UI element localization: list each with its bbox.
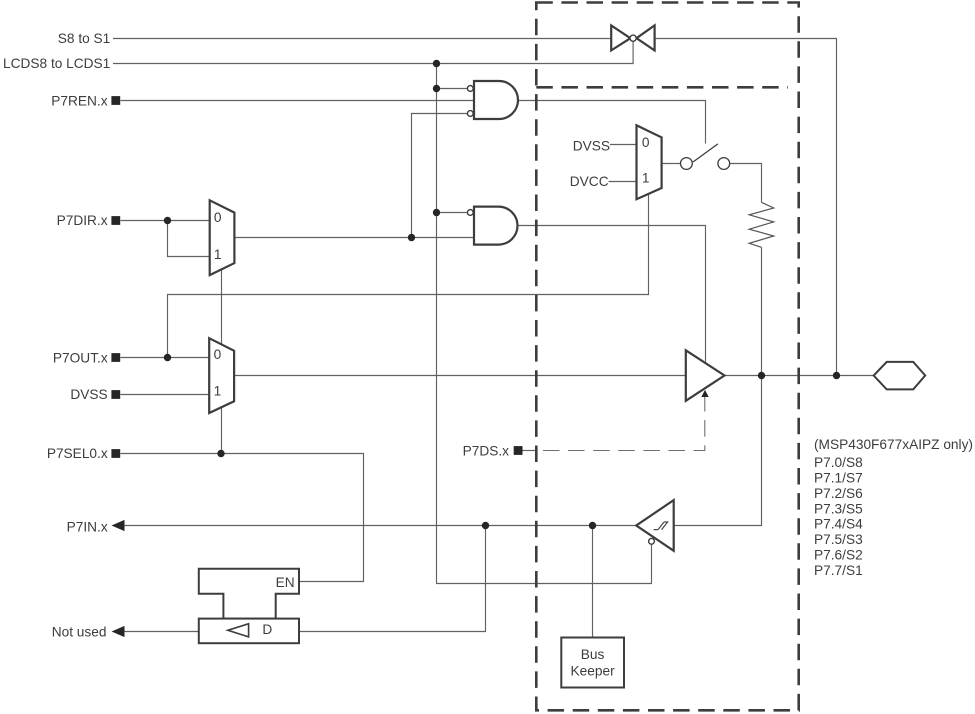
svg-text:1: 1 [214, 247, 222, 262]
D latch box [199, 619, 299, 644]
svg-text:P7.6/S2: P7.6/S2 [814, 548, 863, 563]
svg-text:D: D [262, 622, 272, 637]
svg-text:P7.7/S1: P7.7/S1 [814, 563, 863, 578]
input Schmitt trigger triangle [636, 500, 673, 551]
node P7OUT branch [164, 354, 171, 361]
svg-text:P7.4/S4: P7.4/S4 [814, 517, 863, 532]
wire resistor bottom to Schmitt input [674, 247, 762, 525]
svg-text:DVSS: DVSS [70, 387, 107, 402]
schmitt enable bubble [649, 538, 655, 544]
svg-text:1: 1 [214, 384, 222, 399]
svg-text:P7.5/S3: P7.5/S3 [814, 532, 863, 547]
node direction net [408, 234, 415, 241]
wire P7IN.x from Schmitt output [124, 525, 636, 527]
node P7IN / D latch [482, 522, 489, 529]
wire DVSS input [121, 394, 210, 396]
wire mux select column from P7SEL0 [221, 269, 223, 454]
svg-text:P7IN.x: P7IN.x [67, 519, 108, 534]
node pad / S8 line [833, 372, 840, 379]
svg-text:P7REN.x: P7REN.x [51, 93, 107, 108]
node pad / resistor [758, 372, 765, 379]
wire D latch output to P7IN net [299, 526, 486, 632]
svg-text:Bus: Bus [581, 647, 605, 662]
inverter bubble U1 bottom input [467, 111, 473, 117]
wire P7SEL0.x to EN [121, 454, 364, 582]
mux M1 P7DIR [210, 200, 235, 275]
svg-text:0: 0 [214, 347, 222, 362]
wire Not used from D latch [124, 631, 199, 633]
wire output buffer to pad [725, 375, 874, 377]
D latch clock triangle [228, 624, 249, 637]
and gate U2 (direction logic) [474, 207, 518, 245]
resistor R1 zigzag [749, 202, 774, 247]
switch lever [693, 144, 718, 162]
svg-text:0: 0 [214, 210, 222, 225]
output buffer triangle [686, 350, 725, 401]
switch contact circle right [718, 158, 730, 170]
svg-text:Not used: Not used [52, 625, 107, 640]
svg-text:S8 to S1: S8 to S1 [58, 31, 111, 46]
wire U2 output to output buffer enable [517, 226, 705, 362]
node U2 top input [433, 209, 440, 216]
wire LCDS8-to-LCDS1 to transmission-gate control [113, 42, 633, 64]
node LCDS column top [433, 60, 440, 67]
terminal square P7REN.x [111, 96, 120, 105]
node U1 top input [433, 85, 440, 92]
dashed module boundary box [536, 3, 798, 711]
svg-text:(MSP430F677xAIPZ only): (MSP430F677xAIPZ only) [814, 437, 973, 452]
svg-text:DVSS: DVSS [573, 138, 610, 153]
svg-text:P7.2/S6: P7.2/S6 [814, 486, 863, 501]
svg-text:1: 1 [642, 171, 650, 186]
node P7SEL0 branch [217, 450, 224, 457]
terminal square P7OUT.x [111, 353, 120, 362]
wire P7DIR.x input [121, 220, 210, 222]
drive strength arrowhead [701, 390, 708, 397]
arrow P7IN.x [112, 520, 125, 531]
schmitt hysteresis symbol [654, 522, 669, 530]
wire switch to resistor [730, 164, 761, 203]
wire LCD-disable vertical column to Schmitt enable [437, 64, 652, 584]
svg-text:EN: EN [276, 575, 295, 590]
wire P7OUT branch to pull-mux select [168, 193, 649, 357]
wire S8-to-S1 right segment to pad column [655, 39, 837, 376]
wire DVCC label to pull mux [609, 181, 637, 183]
transmission gate right triangle [637, 25, 655, 50]
svg-text:P7.0/S8: P7.0/S8 [814, 455, 863, 470]
bus keeper box [561, 638, 624, 688]
svg-text:0: 0 [642, 135, 650, 150]
wire U1 bottom input from direction net [412, 114, 475, 238]
wire P7OUT.x input [121, 357, 210, 359]
wire U2 top input from LCD column [437, 212, 469, 214]
svg-text:LCDS8 to LCDS1: LCDS8 to LCDS1 [3, 56, 110, 71]
svg-text:P7DS.x: P7DS.x [463, 443, 510, 458]
wire P7DIR branch to mux input 1 [168, 221, 210, 257]
inverter bubble U1 top input [467, 86, 473, 92]
transmission gate left triangle [611, 25, 630, 50]
wire U1 top input from LCD column [437, 88, 468, 90]
switch contact circle left [681, 158, 693, 170]
terminal square P7DS.x [514, 446, 523, 455]
pad hexagon [874, 362, 926, 390]
svg-text:P7OUT.x: P7OUT.x [53, 350, 108, 365]
dashed inner divider line [536, 86, 788, 89]
terminal square P7DIR.x [111, 216, 120, 225]
terminal square DVSS [111, 390, 120, 399]
terminal square P7SEL0.x [111, 449, 120, 458]
node P7IN / bus keeper [589, 522, 596, 529]
transmission gate control circle [630, 35, 636, 41]
wire direction mux output to AND U2 [234, 237, 474, 239]
svg-text:P7DIR.x: P7DIR.x [57, 213, 108, 228]
wire DVSS label to pull mux [610, 144, 637, 146]
wire S8-to-S1 left segment [113, 38, 611, 40]
and gate U1 (REN logic) [474, 81, 518, 119]
wire P7DS.x dashed to buffer drive strength [543, 397, 705, 451]
svg-text:Keeper: Keeper [571, 664, 616, 679]
wire pull mux output to switch [662, 163, 681, 165]
wire P7DS.x solid stub [523, 450, 538, 452]
mux M2 P7OUT [209, 338, 234, 413]
wire output mux to output buffer [234, 375, 686, 377]
inverter bubble U2 top input [467, 210, 473, 216]
svg-text:P7.1/S7: P7.1/S7 [814, 470, 863, 485]
wire bus keeper to P7IN net [592, 526, 594, 638]
arrow Not used [112, 626, 125, 637]
svg-text:DVCC: DVCC [570, 174, 609, 189]
wire P7REN.x through AND U1 to switch lever [121, 101, 706, 144]
EN latch box with neck legs [199, 569, 299, 619]
svg-text:P7SEL0.x: P7SEL0.x [47, 446, 108, 461]
svg-text:P7.3/S5: P7.3/S5 [814, 501, 863, 516]
node P7DIR branch [164, 217, 171, 224]
mux M3 pullup source [637, 125, 662, 199]
